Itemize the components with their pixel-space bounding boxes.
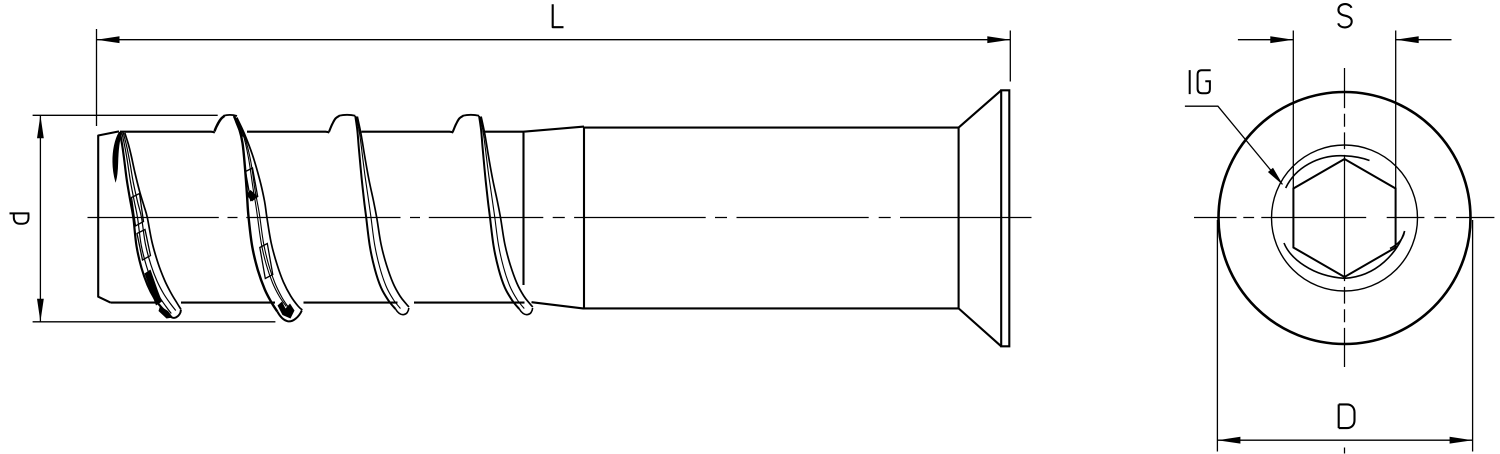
dimension S line with arrowheads [1238, 39, 1452, 41]
dimension D extension lines [1217, 220, 1472, 452]
centerline of screw axis [88, 217, 1032, 219]
thread core top outline [120, 131, 524, 134]
thread flight 4 [453, 115, 533, 315]
transition cone to shank [524, 127, 585, 309]
dimension d extension line top [33, 114, 218, 116]
vertical centerline of end view [1344, 68, 1346, 454]
screw tip end face [98, 131, 119, 302]
socket chamfer arc bottom [1284, 231, 1405, 278]
thread core bottom outline [111, 302, 525, 304]
dimension D line with arrowheads [1217, 439, 1472, 441]
dimension d extension line bottom [33, 321, 276, 323]
head outer circle (diameter D) [1219, 92, 1471, 344]
shank cylinder [584, 127, 959, 309]
dimension L extension line right [1009, 31, 1011, 82]
countersink rim circle [1272, 145, 1418, 291]
countersunk head cone [959, 90, 1002, 346]
label D [1339, 404, 1355, 428]
thread flight 3 [329, 115, 409, 315]
dimension L line with arrowheads [97, 39, 1011, 41]
thread flight 2 (cutting thread) [215, 115, 303, 322]
dimension L extension line left [96, 29, 98, 126]
dimension S extension lines [1293, 31, 1395, 189]
label d (rotated) [10, 213, 30, 223]
thread flight 1 (cutting thread at tip) [113, 132, 181, 319]
label L [553, 4, 564, 27]
horizontal centerline of end view [1194, 217, 1494, 219]
label S [1338, 4, 1352, 27]
label IG [1190, 70, 1211, 94]
dimension d line with arrowheads [39, 115, 41, 321]
leader line IG [1185, 106, 1282, 184]
hex socket [1293, 159, 1395, 277]
socket chamfer arc top [1286, 156, 1370, 188]
countersunk head rim face [1001, 90, 1009, 346]
